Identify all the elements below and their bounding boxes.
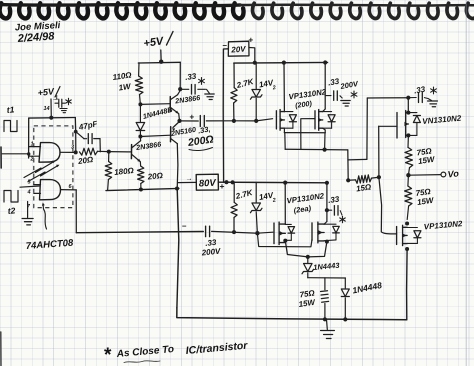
zener 14V (top)	[255, 63, 257, 89]
node 15 ohm left	[346, 178, 350, 182]
wire rail right drop	[179, 62, 181, 89]
star marker (driver cap)	[201, 78, 203, 85]
node rail a	[224, 180, 228, 184]
svg-text:20Ω: 20Ω	[77, 155, 95, 166]
wire pin3 to RC node	[60, 151, 75, 153]
wire +5V down to IC rail	[50, 99, 52, 118]
wire driver out to cap	[180, 120, 199, 122]
capacitor .33 (top half-bridge)	[325, 95, 331, 97]
star marker at IC bypass	[68, 98, 70, 104]
svg-text:+: +	[190, 113, 195, 122]
wire clamp node to P-gate	[256, 119, 272, 121]
body diode QB	[323, 111, 332, 113]
node Q2 collector/diode	[138, 135, 142, 139]
resistor 15 ohm	[348, 179, 355, 181]
svg-text:3: 3	[71, 145, 74, 151]
capacitor .33 (driver decoupling)	[180, 88, 189, 90]
wire VN gate	[379, 125, 397, 127]
wire 180 ohm to bottom rail	[107, 180, 110, 191]
+80V rail	[218, 181, 327, 184]
svg-text:.33: .33	[327, 77, 340, 88]
node QB2 cap node	[325, 208, 329, 212]
svg-text:1W: 1W	[118, 82, 133, 93]
bypass cap .1 at IC	[55, 102, 59, 104]
ground (driver cap)	[205, 93, 214, 95]
svg-text:*: *	[104, 345, 112, 366]
MOSFET QB2 VP1310N2 (bottom mid)	[311, 223, 313, 241]
20V supply box	[228, 41, 249, 56]
capacitor .33 coupling	[199, 116, 201, 127]
MOSFET U3 VN1310N2	[396, 113, 398, 139]
ground at pin 7	[22, 218, 33, 220]
svg-text:15W: 15W	[298, 298, 317, 309]
svg-text:(2ea): (2ea)	[293, 204, 312, 215]
terminal circle Vo	[441, 172, 446, 177]
svg-text:VN1310N2: VN1310N2	[422, 114, 462, 126]
wire VN gate riser	[378, 126, 380, 177]
body diode QA	[284, 111, 293, 113]
star (QB2 cap)	[342, 216, 344, 222]
svg-text:2/24/98: 2/24/98	[16, 30, 55, 45]
svg-text:.33: .33	[328, 194, 341, 205]
svg-text:.33: .33	[413, 85, 426, 96]
svg-text:80V: 80V	[199, 178, 217, 190]
wire mid link to 15 ohm column	[347, 150, 349, 180]
wire coupling cap to clamp	[206, 120, 234, 122]
node RC output	[107, 150, 111, 154]
svg-text:1N4448B: 1N4448B	[142, 105, 174, 121]
wire mid link rail	[285, 148, 348, 151]
wire gate2 run right	[76, 232, 203, 233]
node +20 rail / QB source	[323, 60, 327, 64]
svg-text:→: →	[186, 176, 193, 183]
node pin2 junction	[27, 152, 30, 155]
wire RC top entry	[76, 132, 84, 139]
wire minus rail	[177, 189, 179, 308]
svg-text:As Close To: As Close To	[115, 344, 174, 360]
wire 20V minus down to 80V rail	[223, 49, 228, 182]
pin 2 wire	[29, 155, 39, 157]
svg-text:VP1310N2: VP1310N2	[423, 219, 463, 231]
wire pin7 to ground	[27, 202, 29, 218]
ground (bottom)	[321, 330, 335, 332]
node +5V rail	[159, 60, 163, 64]
svg-text:(200): (200)	[295, 99, 313, 110]
node U4 source	[405, 247, 409, 251]
svg-text:110Ω: 110Ω	[112, 70, 133, 82]
pin 5 wire	[34, 184, 41, 186]
svg-text:2: 2	[30, 157, 34, 163]
wire QB gate jog	[301, 119, 315, 149]
wire bus drop left	[284, 133, 286, 150]
node +20 rail left	[253, 61, 257, 65]
AND gate U1B	[40, 180, 61, 200]
wire Q1 base	[140, 103, 170, 106]
wire VN drain	[407, 98, 409, 112]
wire U4 source down	[406, 249, 409, 320]
wire Q2 collector up	[139, 137, 141, 141]
wire to Q2 base	[109, 151, 131, 153]
resistor 75 ohm 15W (upper)	[405, 147, 413, 167]
callout arrow to U1B	[43, 204, 47, 229]
svg-text:Vo: Vo	[447, 168, 460, 179]
ground (top hb cap)	[341, 100, 350, 102]
svg-text:4: 4	[27, 190, 31, 196]
wire driver +5V rail	[138, 61, 180, 64]
wire bottom drain bus	[285, 241, 327, 257]
callout arrow to U1A	[24, 162, 54, 178]
resistor 180 ohm	[105, 162, 112, 180]
small ground at IC bypass	[60, 108, 67, 110]
pin 1 wire	[29, 146, 41, 148]
wire IC left rail	[28, 118, 30, 158]
svg-text:t1: t1	[6, 104, 15, 115]
spiral binding coil	[0, 3, 10, 18]
svg-text:–: –	[182, 222, 187, 231]
AND gate U1A	[39, 143, 60, 163]
svg-text:.33: .33	[185, 71, 198, 82]
input waveform t1	[4, 121, 17, 132]
svg-text:2.7K: 2.7K	[234, 188, 255, 201]
wire ground stub	[326, 319, 329, 329]
IC supply rail (solid box top)	[29, 117, 76, 120]
wire Q1 emitter to node	[178, 114, 181, 120]
wire QA source up	[283, 63, 285, 112]
wire 20V plus to +20 rail	[249, 48, 255, 63]
svg-text:.1: .1	[53, 95, 59, 102]
svg-text:20Ω: 20Ω	[146, 171, 164, 182]
star (top hb cap)	[353, 91, 355, 98]
resistor 2.7K (top)	[233, 63, 235, 88]
wire QB2 gate jog	[257, 233, 312, 246]
svg-text:200V: 200V	[339, 79, 360, 91]
wire QB source up	[323, 109, 326, 112]
svg-text:+5V: +5V	[143, 35, 166, 50]
pin 4 wire	[34, 192, 41, 194]
resistor 75 ohm 15W (lower)	[407, 175, 410, 186]
node gate riser/15 ohm	[377, 175, 381, 179]
svg-text:6: 6	[69, 184, 73, 190]
node VN drain top	[406, 96, 410, 100]
page left edge mark lower	[0, 332, 2, 366]
node bottom/D4	[343, 317, 347, 321]
wire RC left column	[75, 132, 77, 153]
wire lower bus	[308, 277, 346, 279]
node mid link	[323, 148, 327, 152]
resistor 20 ohm (RC)	[80, 148, 98, 155]
svg-text:2.7K: 2.7K	[235, 77, 256, 90]
node Vo	[406, 173, 410, 177]
resistor 110 ohm 1W	[138, 63, 140, 76]
svg-text:74AHCT08: 74AHCT08	[25, 238, 74, 252]
node bias upper	[138, 102, 142, 106]
body diode VN	[408, 112, 417, 114]
svg-text:IC/transistor: IC/transistor	[185, 340, 249, 357]
svg-text:1N4448: 1N4448	[351, 280, 382, 296]
wire t2 to gate2 input	[20, 186, 39, 187]
star (VN cap)	[433, 87, 435, 94]
wire clamp to gates (top)	[234, 120, 256, 122]
wire RC right side	[99, 139, 101, 152]
svg-text:+: +	[249, 36, 254, 45]
svg-text:47pF: 47pF	[77, 119, 99, 132]
wire mid link right	[348, 158, 367, 161]
wire cap to clamp node	[212, 231, 258, 233]
svg-text:15Ω: 15Ω	[356, 182, 373, 193]
wire t1 to gate inputs	[2, 153, 29, 155]
node 2.7K bottom (top clamp)	[232, 119, 236, 123]
wire Q3 base	[140, 135, 170, 136]
node rail QB2 end	[325, 181, 329, 185]
wire Q3 collector down	[176, 144, 179, 189]
svg-text:1N4443: 1N4443	[313, 261, 341, 272]
svg-text:14: 14	[44, 106, 50, 112]
node U4 drain	[405, 222, 409, 226]
node bottom/75 ohm	[323, 317, 327, 321]
node +20 rail / QA source	[282, 61, 286, 65]
wire node to 180 ohm	[108, 152, 110, 162]
wire gate2 drop	[75, 190, 77, 233]
footnote small scribble	[124, 361, 160, 363]
capacitor .33 (VN)	[408, 97, 416, 99]
page left edge mark upper	[0, 147, 2, 168]
wire VN source down	[407, 135, 409, 147]
svg-text:20V: 20V	[230, 44, 246, 54]
capacitor 47pF	[84, 138, 87, 140]
node PNP collector/bottom rail	[175, 187, 179, 191]
transistor Q2 2N3866 lower	[130, 145, 132, 159]
svg-text:2: 2	[271, 85, 276, 92]
svg-text:2: 2	[271, 198, 276, 205]
notebook top edge line	[0, 3, 240, 7]
svg-text:15W: 15W	[418, 155, 437, 166]
wire pin6 out	[61, 189, 77, 191]
node 20ohm/bottom rail	[139, 188, 143, 192]
node QB2 drain	[325, 240, 329, 244]
node QA2 drain	[283, 239, 287, 243]
zener 14V (bottom)	[255, 183, 257, 203]
resistor 20 ohm emitter	[139, 162, 141, 166]
svg-text:200V: 200V	[200, 247, 221, 258]
wire U4 gate feed	[379, 177, 397, 234]
diode D3 1N4443	[307, 257, 309, 263]
MOSFET QA2 VP1310N2 (bottom left)	[273, 223, 275, 244]
wire top feed to VN drain	[367, 97, 408, 99]
wire driver bottom rail	[106, 188, 179, 190]
node zener bottom (top clamp)	[254, 119, 258, 123]
svg-text:1: 1	[31, 142, 34, 148]
transistor Q3 2N5160	[170, 127, 172, 142]
right margin rule	[465, 0, 467, 366]
wire top drain bus	[284, 132, 325, 134]
node VN drain pin	[406, 111, 410, 115]
node decoupling junction	[178, 87, 182, 91]
svg-text:180Ω: 180Ω	[114, 166, 135, 177]
wire +5V to rail	[160, 50, 162, 62]
wire to Vo terminal	[408, 174, 441, 177]
wire IC right rail to pin3 column	[74, 118, 76, 132]
MOSFET QB VP1310N2 (top right)	[314, 111, 316, 129]
wire QA2 source up	[284, 183, 286, 225]
+20V rail	[234, 61, 328, 64]
diode D4 1N4448	[344, 278, 346, 288]
wire QB2 source up	[324, 222, 327, 225]
diode D1 1N4448B	[139, 104, 141, 121]
wire clamp to QA2 gate	[257, 232, 273, 233]
node +5V/IC rail junction	[49, 116, 53, 120]
capacitor .33 200V	[205, 226, 207, 237]
resistor 75 ohm 15W (euro style)	[324, 278, 326, 290]
node rail QA2	[283, 181, 287, 185]
wire RC to base node	[98, 150, 109, 152]
svg-text:2N3866: 2N3866	[135, 139, 163, 152]
node drain bus / D3	[306, 255, 310, 259]
ground (VN cap)	[428, 100, 438, 102]
80V supply box	[196, 174, 218, 190]
svg-text:200Ω: 200Ω	[186, 134, 214, 150]
body diode U4	[407, 227, 417, 229]
node rail b	[231, 180, 235, 184]
input waveform t2	[4, 191, 18, 203]
transistor Q1 2N3866 upper	[169, 97, 171, 112]
svg-text:t2: t2	[7, 205, 16, 216]
body diode QA2	[285, 223, 291, 225]
node VN source pin	[406, 133, 410, 137]
wire bottom return	[177, 308, 407, 320]
wire right riser	[366, 98, 368, 159]
node 2.7K bottom join	[232, 230, 236, 234]
node pin3/RC left	[74, 150, 78, 154]
MOSFET U4 VP1310N2 (bottom right)	[396, 227, 398, 245]
resistor 2.7K (bottom)	[233, 182, 235, 202]
svg-text:15W: 15W	[417, 196, 436, 207]
node driver output	[177, 119, 181, 123]
MOSFET QA VP1310N2 (top left)	[275, 111, 277, 129]
wire minus rail to 80V box	[178, 181, 196, 183]
wire QB drain drop	[324, 133, 326, 150]
74AHCT08 dashed IC outline	[34, 126, 73, 208]
capacitor .33 (QB2)	[327, 209, 332, 211]
body diode QB2	[324, 223, 336, 225]
node bottom clamp	[255, 231, 259, 235]
